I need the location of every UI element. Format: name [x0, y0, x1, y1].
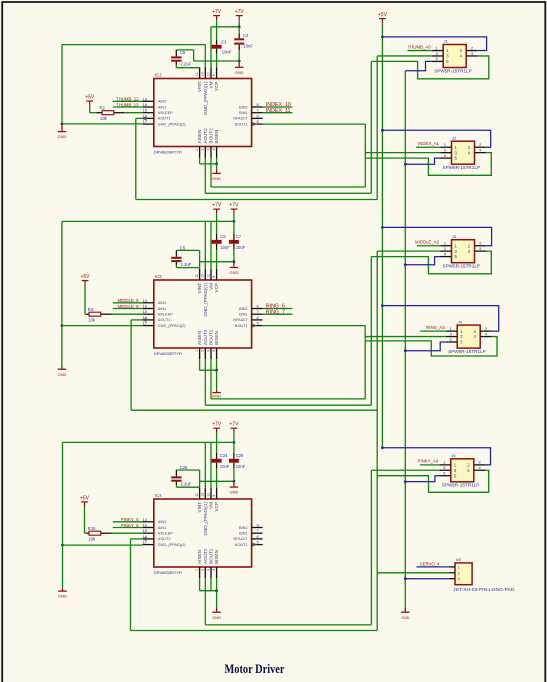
svg-text:VINT: VINT — [197, 81, 202, 92]
svg-text:VM: VM — [209, 502, 214, 509]
svg-text:SPW5R-15TR1LP: SPW5R-15TR1LP — [443, 165, 481, 170]
svg-text:4: 4 — [212, 569, 216, 571]
svg-text:2.2uF: 2.2uF — [181, 262, 192, 267]
svg-text:NSLEEP: NSLEEP — [158, 532, 173, 536]
svg-text:BIN1: BIN1 — [239, 111, 247, 115]
svg-text:10nF: 10nF — [220, 464, 230, 469]
svg-text:2.2uF: 2.2uF — [180, 61, 191, 66]
svg-text:AIN1: AIN1 — [158, 307, 166, 311]
svg-text:+7V: +7V — [229, 422, 239, 428]
svg-text:+5V: +5V — [378, 12, 388, 18]
svg-text:INDEX_A1: INDEX_A1 — [418, 141, 439, 146]
svg-text:13: 13 — [201, 72, 205, 76]
svg-text:NSLEEP: NSLEEP — [158, 313, 173, 317]
svg-text:BISEN: BISEN — [214, 130, 219, 144]
svg-text:2: 2 — [201, 350, 205, 352]
svg-text:R18: R18 — [88, 526, 96, 531]
svg-text:AIN2: AIN2 — [158, 301, 166, 305]
svg-text:1: 1 — [195, 569, 199, 571]
svg-text:VM: VM — [209, 283, 214, 290]
svg-text:BOUT1: BOUT1 — [235, 543, 248, 547]
svg-text:MIDDLE_8: MIDDLE_8 — [117, 298, 139, 303]
svg-text:2: 2 — [201, 148, 205, 150]
svg-text:IC3: IC3 — [155, 274, 162, 279]
svg-text:10nF: 10nF — [220, 245, 230, 250]
svg-text:+7V: +7V — [229, 203, 239, 209]
svg-text:VINT: VINT — [197, 502, 202, 513]
svg-text:C26: C26 — [236, 453, 244, 458]
svg-text:MIDDLE_9: MIDDLE_9 — [117, 304, 139, 309]
svg-text:PINKY_A4: PINKY_A4 — [418, 459, 439, 464]
svg-text:10: 10 — [206, 274, 210, 278]
svg-text:15: 15 — [143, 309, 148, 314]
svg-text:C7: C7 — [236, 234, 242, 239]
svg-text:AOUT1: AOUT1 — [158, 537, 171, 541]
svg-text:4: 4 — [212, 148, 216, 150]
svg-text:GND_(PPAD)(2): GND_(PPAD)(2) — [158, 122, 187, 126]
svg-text:1: 1 — [195, 148, 199, 150]
svg-text:IC4: IC4 — [155, 493, 162, 498]
svg-text:PINKY_6: PINKY_6 — [121, 523, 139, 528]
svg-text:3: 3 — [458, 577, 460, 581]
svg-text:BISEN: BISEN — [214, 331, 219, 345]
svg-text:Motor Driver: Motor Driver — [225, 661, 285, 676]
svg-text:BIN2: BIN2 — [239, 526, 247, 530]
svg-text:BOUT2: BOUT2 — [209, 548, 214, 564]
svg-text:R3: R3 — [88, 307, 94, 312]
svg-text:SPW5R-15TR1LP: SPW5R-15TR1LP — [448, 349, 486, 354]
svg-text:THUMB_12: THUMB_12 — [116, 97, 139, 102]
svg-text:13: 13 — [201, 274, 205, 278]
svg-text:GND_(PPAD)(2): GND_(PPAD)(2) — [158, 543, 187, 547]
svg-text:C4: C4 — [243, 33, 249, 38]
svg-text:GND_(PPAD)(2): GND_(PPAD)(2) — [158, 324, 187, 328]
svg-text:RING_A3: RING_A3 — [426, 325, 445, 330]
svg-text:9: 9 — [212, 495, 216, 497]
svg-text:RING_7: RING_7 — [266, 309, 285, 315]
svg-text:AIN2: AIN2 — [158, 520, 166, 524]
svg-text:SPW5R-15TR1LP: SPW5R-15TR1LP — [442, 483, 480, 488]
svg-text:13: 13 — [201, 493, 205, 497]
svg-text:11: 11 — [195, 274, 199, 278]
svg-text:GND: GND — [57, 372, 66, 377]
svg-text:NFAULT: NFAULT — [233, 117, 248, 121]
svg-text:BIN1: BIN1 — [239, 313, 247, 317]
svg-text:+5V: +5V — [85, 94, 95, 100]
svg-text:AIN2: AIN2 — [158, 100, 166, 104]
svg-text:2.2uF: 2.2uF — [181, 481, 192, 486]
svg-text:GND: GND — [229, 490, 238, 495]
svg-text:THUMB_A0: THUMB_A0 — [408, 44, 432, 49]
svg-text:+5V: +5V — [80, 495, 90, 501]
svg-text:SERVO_4: SERVO_4 — [420, 561, 440, 566]
svg-text:+7V: +7V — [212, 9, 222, 15]
svg-text:11: 11 — [195, 493, 199, 497]
svg-text:VCP: VCP — [214, 283, 219, 292]
svg-text:13: 13 — [143, 517, 148, 522]
svg-text:3: 3 — [206, 350, 210, 352]
svg-text:2: 2 — [458, 571, 460, 575]
svg-text:15: 15 — [143, 108, 148, 113]
svg-text:C8: C8 — [180, 50, 186, 55]
svg-text:AOUT2: AOUT2 — [203, 548, 208, 564]
svg-text:NFAULT: NFAULT — [233, 318, 248, 322]
svg-text:SPW5R-15TR1LP: SPW5R-15TR1LP — [434, 68, 472, 73]
svg-text:C5: C5 — [180, 246, 186, 251]
svg-text:16: 16 — [143, 523, 148, 528]
svg-text:10k: 10k — [100, 116, 108, 121]
svg-text:16: 16 — [143, 304, 148, 309]
svg-text:GND: GND — [212, 176, 221, 181]
svg-text:NSLEEP: NSLEEP — [158, 111, 173, 115]
svg-text:AOUT1: AOUT1 — [158, 117, 171, 121]
svg-text:C24: C24 — [220, 453, 228, 458]
svg-text:R2: R2 — [100, 105, 106, 110]
svg-text:BISEN: BISEN — [214, 550, 219, 564]
svg-text:AIN1: AIN1 — [158, 105, 166, 109]
svg-text:C28: C28 — [180, 465, 188, 470]
svg-text:10k: 10k — [88, 536, 96, 541]
svg-text:2: 2 — [201, 569, 205, 571]
svg-text:+7V: +7V — [212, 422, 222, 428]
svg-text:JST-XH-03-PIN-LONG-PAD: JST-XH-03-PIN-LONG-PAD — [453, 587, 515, 592]
svg-text:BOUT1: BOUT1 — [235, 122, 248, 126]
svg-text:NFAULT: NFAULT — [233, 537, 248, 541]
svg-text:VM: VM — [209, 81, 214, 88]
svg-text:AISEN: AISEN — [197, 130, 202, 144]
svg-text:C3: C3 — [221, 39, 227, 44]
svg-text:AOUT2: AOUT2 — [203, 128, 208, 144]
svg-text:THUMB_13: THUMB_13 — [116, 102, 139, 107]
svg-text:AOUT1: AOUT1 — [158, 318, 171, 322]
svg-text:DRV8833RTYR: DRV8833RTYR — [154, 351, 182, 356]
svg-text:GND: GND — [212, 615, 221, 620]
svg-text:1: 1 — [195, 350, 199, 352]
svg-text:PINKY_5: PINKY_5 — [121, 517, 139, 522]
svg-text:GND_(PPAD)(1): GND_(PPAD)(1) — [203, 502, 208, 536]
svg-text:IC2: IC2 — [155, 72, 162, 77]
svg-text:AISEN: AISEN — [197, 550, 202, 564]
svg-text:GND_(PPAD)(1): GND_(PPAD)(1) — [203, 81, 208, 115]
svg-text:SPW5R-15TR1LP: SPW5R-15TR1LP — [443, 264, 481, 269]
svg-text:10nF: 10nF — [236, 245, 246, 250]
svg-text:13: 13 — [143, 96, 148, 101]
svg-text:9: 9 — [212, 276, 216, 278]
svg-text:MIDDLE_A2: MIDDLE_A2 — [415, 240, 439, 245]
svg-text:+7V: +7V — [235, 9, 245, 15]
svg-text:GND_(PPAD)(1): GND_(PPAD)(1) — [203, 283, 208, 317]
svg-text:AOUT2: AOUT2 — [203, 329, 208, 345]
svg-text:11: 11 — [195, 72, 199, 76]
svg-text:10: 10 — [206, 72, 210, 76]
svg-text:BIN2: BIN2 — [239, 307, 247, 311]
svg-text:GND: GND — [58, 594, 67, 599]
svg-text:3: 3 — [206, 569, 210, 571]
svg-text:GND: GND — [229, 270, 238, 275]
svg-text:AISEN: AISEN — [197, 331, 202, 345]
svg-text:16: 16 — [143, 102, 148, 107]
svg-text:10k: 10k — [88, 317, 96, 322]
svg-text:GND: GND — [235, 70, 244, 75]
svg-text:GND: GND — [58, 134, 67, 139]
svg-text:VCP: VCP — [214, 502, 219, 511]
svg-text:4: 4 — [212, 350, 216, 352]
svg-text:15: 15 — [143, 528, 148, 533]
svg-text:X8: X8 — [456, 557, 462, 562]
svg-text:BOUT2: BOUT2 — [209, 329, 214, 345]
svg-text:DRV8833RTYR: DRV8833RTYR — [154, 570, 182, 575]
svg-text:BOUT2: BOUT2 — [209, 128, 214, 144]
svg-text:VCP: VCP — [214, 82, 219, 91]
svg-text:BOUT1: BOUT1 — [235, 324, 248, 328]
svg-text:VINT: VINT — [197, 283, 202, 294]
svg-text:10nF: 10nF — [243, 43, 253, 48]
svg-text:13: 13 — [143, 298, 148, 303]
svg-text:+7V: +7V — [212, 203, 222, 209]
svg-text:BIN2: BIN2 — [239, 105, 247, 109]
svg-text:+5V: +5V — [80, 274, 90, 280]
svg-text:10: 10 — [206, 493, 210, 497]
svg-text:3: 3 — [206, 148, 210, 150]
svg-text:GND: GND — [212, 393, 221, 398]
svg-text:INDEX_11: INDEX_11 — [266, 108, 291, 114]
svg-text:10nF: 10nF — [236, 464, 246, 469]
svg-text:C6: C6 — [220, 234, 226, 239]
svg-text:GND: GND — [401, 616, 409, 620]
svg-text:10nF: 10nF — [222, 50, 232, 55]
svg-text:1: 1 — [458, 565, 460, 569]
svg-text:9: 9 — [212, 74, 216, 76]
svg-text:BIN1: BIN1 — [239, 532, 247, 536]
svg-text:AIN1: AIN1 — [158, 526, 166, 530]
svg-text:DRV8833RTYR: DRV8833RTYR — [154, 150, 182, 155]
